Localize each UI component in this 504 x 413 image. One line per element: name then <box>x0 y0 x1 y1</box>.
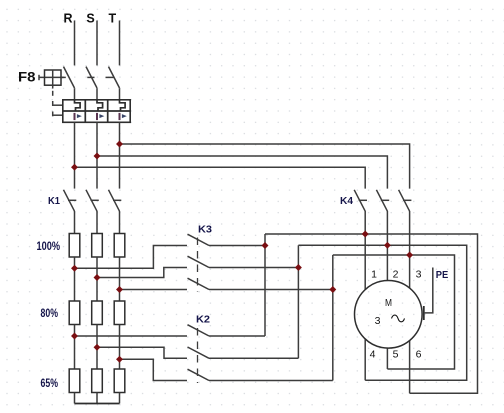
wire R 100% to 80% <box>74 257 76 301</box>
wire K1 pole 3 to resistors <box>119 211 121 234</box>
wire tap R to K3 pole 1 <box>75 246 188 269</box>
contactor K2 pole 1 <box>188 325 210 336</box>
breaker F8 pole 3 contact <box>109 67 120 100</box>
wire node S to K4 pole 2 <box>97 156 387 189</box>
junction net C / K3.3 <box>329 286 336 293</box>
wire tap2 T to K2 pole 3 <box>120 359 188 380</box>
wire phase S breaker to K1 <box>96 122 98 188</box>
svg-text:3: 3 <box>416 268 422 280</box>
contactor K3 pole 3 <box>188 278 210 289</box>
wire K1 pole 1 to resistors <box>74 211 76 234</box>
contactor K3 linkage <box>197 238 199 293</box>
resistor 100% phase S <box>92 234 103 258</box>
resistor 80% phase R <box>69 301 80 325</box>
contactor K1 pole 1 <box>64 190 75 211</box>
contactor K3 pole 1 <box>188 234 210 245</box>
resistor 100% phase R <box>69 234 80 258</box>
svg-text:2: 2 <box>393 268 399 280</box>
svg-text:1: 1 <box>371 268 377 280</box>
svg-text:T: T <box>108 11 116 25</box>
wire K3 pole 2 out <box>209 267 298 269</box>
svg-text:M: M <box>385 298 392 309</box>
svg-text:5: 5 <box>393 349 399 361</box>
wire K3 pole 1 out <box>209 245 265 247</box>
wire tap T to K3 pole 3 <box>120 289 188 291</box>
net A vertical (K3.1/K2.1) <box>264 234 266 336</box>
net A top/right (terminal1-terminal6 link) <box>265 234 478 393</box>
wire R 65% to star <box>74 393 76 404</box>
net C vertical (K3.3/K2.3) <box>332 255 334 381</box>
contactor K1 pole 3 <box>109 190 120 211</box>
wire phase R breaker to K1 <box>74 122 76 188</box>
wire phase R drop <box>74 21 76 66</box>
breaker F8 linkage (dashed) <box>53 77 115 116</box>
junction terminal 1 / net A <box>362 231 369 238</box>
wire K2 pole 3 out <box>209 380 333 382</box>
wire K3 pole 3 out <box>209 289 333 291</box>
resistor 65% phase S <box>92 369 103 393</box>
contactor K2 linkage <box>197 328 199 383</box>
wire S 80% to 65% <box>96 325 98 370</box>
wire phase T breaker to K1 <box>119 122 121 188</box>
svg-text:K1: K1 <box>48 195 60 207</box>
thermal element phase S <box>97 100 103 111</box>
junction net A / K3.1 <box>262 242 269 249</box>
motor label ~ <box>392 315 405 322</box>
junction terminal 2 / net B <box>384 242 391 249</box>
contactor K4 pole 1 <box>354 190 365 211</box>
svg-text:PE: PE <box>436 269 449 281</box>
wire T 65% to star <box>119 393 121 404</box>
wire node T to K4 pole 3 <box>120 144 410 189</box>
PE frame bar <box>423 306 425 320</box>
net B vertical (K3.2/K2.2) <box>297 245 299 358</box>
svg-text:80%: 80% <box>41 306 59 320</box>
contactor K3 pole 2 <box>188 256 210 267</box>
net B top/right (terminal2-terminal4 link) <box>298 245 466 380</box>
wire node R to K4 pole 1 <box>75 167 366 188</box>
breaker F8 pole 2 contact <box>86 67 97 100</box>
breaker F8 overload block <box>63 100 130 123</box>
junction tap2 S (K2) <box>94 344 101 351</box>
resistor 80% phase T <box>114 301 125 325</box>
junction tap2 R (K2) <box>71 333 78 340</box>
resistor 80% phase S <box>92 301 103 325</box>
breaker F8 operator box <box>39 70 64 89</box>
svg-text:3: 3 <box>375 315 381 327</box>
breaker F8 pole 1 contact <box>64 67 75 100</box>
wire motor terminal 6 drop <box>409 341 411 394</box>
wire S 65% to star <box>96 393 98 404</box>
contactor K1 linkage <box>68 199 121 201</box>
PE wire <box>425 268 433 313</box>
svg-text:F8: F8 <box>18 70 36 85</box>
wire K2 pole 1 out <box>209 335 265 337</box>
contactor K4 pole 3 <box>399 190 410 211</box>
wire K4.2 to motor terminal 2 <box>386 211 388 281</box>
thermal element phase R <box>75 100 81 111</box>
wire K4.1 to motor terminal 1 <box>364 211 366 290</box>
magnetic trip I&gt; phase T <box>119 113 127 120</box>
svg-text:K2: K2 <box>196 314 210 326</box>
star point bar <box>75 403 120 405</box>
svg-text:4: 4 <box>370 349 376 361</box>
svg-text:K4: K4 <box>340 195 353 207</box>
contactor K2 pole 3 <box>188 369 210 380</box>
resistor 65% phase R <box>69 369 80 393</box>
junction node S branch <box>94 153 101 160</box>
wire R 80% to 65% <box>74 325 76 370</box>
thermal element phase T <box>120 100 126 111</box>
contactor K4 pole 2 <box>376 190 387 211</box>
resistor 65% phase T <box>114 369 125 393</box>
contactor K4 linkage <box>359 199 412 201</box>
wire motor terminal 5 drop <box>386 348 388 369</box>
junction net B / K3.2 <box>295 264 302 271</box>
junction terminal 3 / net C <box>406 252 413 259</box>
magnetic trip I&gt; phase R <box>74 113 82 120</box>
wire tap2 R to K2 pole 1 <box>75 335 188 337</box>
junction node T branch <box>116 141 123 148</box>
motor M1 body <box>355 281 423 349</box>
wire T 100% to 80% <box>119 257 121 301</box>
wire K2 pole 2 out <box>209 357 298 359</box>
magnetic trip I&gt; phase S <box>96 113 104 120</box>
svg-text:K3: K3 <box>198 224 212 236</box>
resistor 100% phase T <box>114 234 125 258</box>
contactor K2 pole 2 <box>188 347 210 358</box>
svg-text:65%: 65% <box>41 376 59 390</box>
wire phase T drop <box>119 21 121 66</box>
junction tap R (K3) <box>71 265 78 272</box>
junction tap S (K3) <box>94 274 101 281</box>
wire motor terminal 4 drop <box>364 339 366 380</box>
wire K4.3 to motor terminal 3 <box>409 211 411 288</box>
wire tap2 S to K2 pole 2 <box>97 347 187 358</box>
svg-text:R: R <box>63 11 72 25</box>
svg-text:100%: 100% <box>37 239 61 253</box>
wire phase S drop <box>96 21 98 66</box>
svg-text:S: S <box>86 11 94 25</box>
svg-text:6: 6 <box>416 349 422 361</box>
wire S 100% to 80% <box>96 257 98 301</box>
wire T 80% to 65% <box>119 325 121 370</box>
wire K1 pole 2 to resistors <box>96 211 98 234</box>
junction tap2 T (K2) <box>116 356 123 363</box>
junction node R branch <box>71 164 78 171</box>
net C top/right (terminal3-terminal5 link) <box>333 255 455 369</box>
wire tap S to K3 pole 2 <box>97 268 187 278</box>
junction tap T (K3) <box>116 286 123 293</box>
contactor K1 pole 2 <box>86 190 97 211</box>
